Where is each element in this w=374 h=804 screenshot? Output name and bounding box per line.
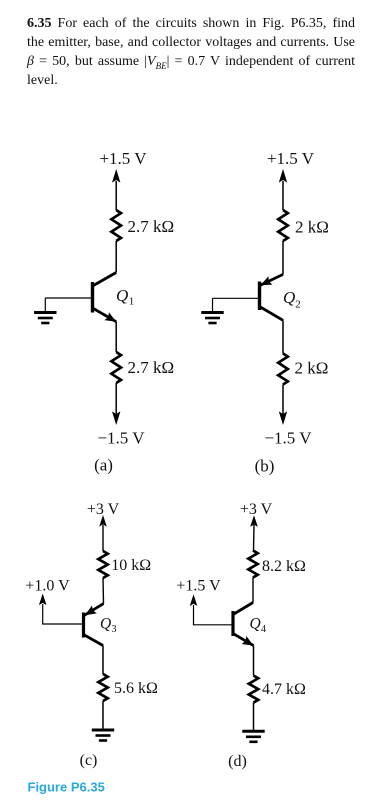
svg-text:Figure P6.35: Figure P6.35 (28, 780, 105, 795)
svg-text:+1.5 V: +1.5 V (267, 149, 315, 168)
svg-text:Q: Q (116, 286, 128, 305)
svg-text:8.2 kΩ: 8.2 kΩ (262, 558, 306, 575)
svg-text:Q: Q (283, 288, 295, 307)
svg-text:(a): (a) (94, 456, 113, 475)
svg-text:(b): (b) (255, 457, 275, 476)
svg-text:4.7 kΩ: 4.7 kΩ (262, 681, 306, 698)
svg-text:5.6 kΩ: 5.6 kΩ (114, 680, 158, 697)
svg-text:2 kΩ: 2 kΩ (295, 359, 329, 378)
svg-text:−1.5 V: −1.5 V (264, 429, 312, 448)
svg-text:+1.5 V: +1.5 V (99, 149, 147, 168)
svg-text:2: 2 (295, 299, 301, 311)
svg-text:+3 V: +3 V (240, 501, 273, 518)
svg-text:(d): (d) (228, 753, 247, 770)
svg-text:+1.5 V: +1.5 V (176, 578, 221, 595)
svg-text:3: 3 (112, 624, 117, 635)
svg-text:+3 V: +3 V (87, 501, 120, 518)
svg-text:2.7 kΩ: 2.7 kΩ (128, 217, 175, 236)
svg-text:Q: Q (250, 616, 261, 633)
svg-text:10 kΩ: 10 kΩ (111, 557, 151, 574)
svg-text:+1.0 V: +1.0 V (25, 578, 70, 595)
svg-text:2.7 kΩ: 2.7 kΩ (128, 358, 175, 377)
svg-text:2 kΩ: 2 kΩ (295, 218, 329, 237)
svg-text:1: 1 (129, 296, 135, 308)
svg-text:−1.5 V: −1.5 V (97, 429, 145, 448)
svg-text:(c): (c) (80, 752, 98, 769)
svg-text:4: 4 (261, 624, 266, 635)
svg-text:Q: Q (100, 616, 111, 633)
